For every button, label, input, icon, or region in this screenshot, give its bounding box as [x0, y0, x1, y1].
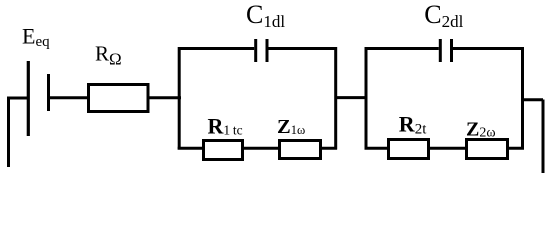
battery E_eq short plate [47, 74, 50, 111]
wire: between R_2t and Z_2w [429, 147, 468, 150]
wire: R to block1 [148, 96, 181, 99]
wire: middle link between blocks [335, 96, 368, 99]
wire: left terminal horizontal to battery [7, 97, 28, 100]
wire: between R_1tc and Z_1w [243, 147, 279, 150]
wire: block1 bottom branch left [178, 147, 203, 150]
wire: output link right [521, 98, 543, 101]
impedance Z_2w box [467, 140, 508, 159]
wire: block1 top-right rail and right vertical [269, 49, 336, 150]
wire: battery to R [49, 96, 89, 99]
wire: block2 bottom branch left [365, 147, 389, 150]
capacitor C_2dl left plate [439, 39, 442, 62]
capacitor C_2dl right plate [450, 39, 453, 62]
impedance Z_1w box [280, 141, 321, 159]
wire: right terminal vertical [542, 100, 545, 174]
wire: Z_1w to block1 right vertical [321, 147, 338, 150]
resistor R_1tc box [204, 141, 243, 160]
resistor R_2t box [389, 140, 429, 159]
capacitor C_1dl left plate [254, 39, 257, 62]
battery E_eq long plate [27, 61, 30, 136]
wire: block2 top-right rail and right vertical [453, 49, 523, 150]
resistor R_omega box [89, 85, 149, 112]
wire: block1 left vertical and top-left rail [179, 49, 254, 150]
wire: Z_2w to block2 right vertical [508, 147, 525, 150]
wire: left terminal vertical [7, 98, 10, 167]
capacitor C_1dl right plate [266, 39, 269, 62]
wire: block2 left vertical and top-left rail [366, 49, 439, 150]
